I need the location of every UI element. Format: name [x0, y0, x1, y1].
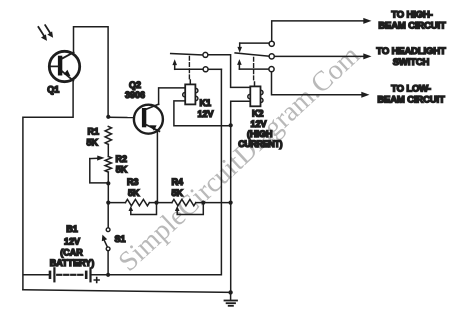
svg-text:(CAR: (CAR [60, 248, 83, 258]
wire Q2 collector to K1 coil [159, 88, 186, 105]
relay coil K2 [248, 82, 263, 106]
svg-text:R1: R1 [88, 127, 100, 137]
svg-text:S1: S1 [115, 234, 126, 244]
wire R1 to R2 [107, 144, 109, 156]
node battery positive junction dot [106, 273, 110, 277]
wire K1 NO contact to K2 coil top [208, 55, 250, 88]
wire bottom return to ground [23, 290, 231, 293]
svg-text:Q1: Q1 [47, 85, 59, 95]
light arrow 1 into Q1 [38, 27, 47, 41]
svg-text:BEAM CIRCUIT: BEAM CIRCUIT [378, 21, 446, 32]
R2 wiper arm [90, 156, 109, 183]
node R2 wiper junction dot [106, 181, 110, 185]
svg-text:R2: R2 [116, 154, 128, 164]
wire Q2 base [108, 116, 134, 118]
node ground rail upper dot [229, 123, 233, 127]
node Q2 emitter rail dot [154, 201, 158, 205]
svg-text:BATTERY): BATTERY) [50, 258, 95, 268]
svg-text:12V: 12V [64, 237, 80, 247]
wire battery row to K1 contact riser [108, 69, 221, 274]
ground [225, 292, 238, 305]
svg-text:(HIGH: (HIGH [247, 129, 273, 139]
resistor R2 (rheostat) [105, 157, 111, 173]
node R4 right junction dot [201, 201, 205, 205]
node rail right dot [229, 201, 233, 205]
wire Q1 emitter to left rail [23, 80, 73, 290]
svg-text:Q2: Q2 [129, 80, 141, 90]
svg-text:TO HEADLIGHT: TO HEADLIGHT [376, 46, 446, 57]
resistor R4 [172, 199, 196, 205]
wire to low-beam circuit [272, 72, 370, 98]
wire rail R2 to lower rail [107, 172, 109, 203]
svg-text:12V: 12V [198, 109, 214, 119]
svg-text:5K: 5K [128, 188, 140, 198]
R3 wiper arm [129, 205, 157, 215]
wire K1 NC contact right [208, 68, 221, 70]
svg-text:K1: K1 [200, 98, 212, 108]
svg-text:BEAM CIRCUIT: BEAM CIRCUIT [377, 94, 445, 105]
switch S1 [102, 203, 110, 275]
resistor R1 [105, 126, 111, 144]
mechanical link K1 [188, 57, 190, 80]
wire Q2 emitter down to rail [156, 131, 158, 203]
node Q2 base junction dot [106, 115, 110, 119]
battery B1 [23, 268, 108, 282]
svg-text:K2: K2 [252, 109, 264, 119]
svg-text:CURRENT): CURRENT) [238, 139, 282, 149]
svg-text:12V: 12V [251, 119, 267, 129]
light arrow 2 into Q1 [45, 25, 53, 38]
resistor R3 [125, 199, 149, 205]
svg-text:R4: R4 [172, 177, 184, 187]
relay K2 contacts [235, 41, 274, 71]
svg-text:SimpleCircuitDiagram.Com: SimpleCircuitDiagram.Com [113, 40, 366, 278]
wire to headlight switch [275, 53, 372, 59]
svg-text:TO LOW-: TO LOW- [391, 83, 431, 94]
svg-text:5K: 5K [116, 164, 128, 174]
wire Q1 collector to top rail [74, 27, 109, 117]
wire lower rail with resistors [108, 202, 125, 204]
phototransistor Q1 [49, 51, 79, 81]
svg-text:SWITCH: SWITCH [393, 57, 430, 68]
relay coil K1 [183, 80, 198, 104]
wire R4 to right rail [196, 202, 231, 204]
transistor Q2 [134, 104, 163, 134]
svg-text:R3: R3 [127, 177, 139, 187]
wire K2 coil bottom to ground rail [231, 101, 251, 292]
svg-text:5K: 5K [87, 138, 99, 148]
svg-text:B1: B1 [66, 224, 78, 234]
wire K1 coil bottom to ground rail [174, 101, 231, 126]
wire to high-beam circuit [272, 18, 372, 41]
node lower-left rail dot [106, 201, 110, 205]
svg-text:3906: 3906 [125, 90, 145, 100]
mechanical link K2 [253, 58, 255, 82]
svg-text:TO HIGH-: TO HIGH- [391, 10, 432, 21]
relay K1 contacts [171, 52, 208, 71]
wire R3 to junction [149, 202, 172, 204]
svg-text:5K: 5K [172, 188, 184, 198]
node ground junction dot [228, 290, 232, 294]
R4 wiper arm [175, 205, 203, 215]
